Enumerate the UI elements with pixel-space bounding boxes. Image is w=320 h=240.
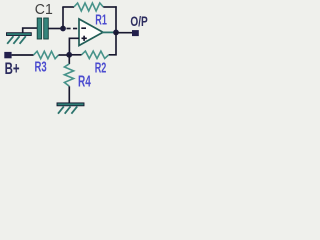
wire: R2 to node C — [70, 54, 82, 56]
node C (non-inverting input junction) — [66, 52, 72, 58]
resistor R1 — [74, 3, 103, 11]
wire: R3 to node C — [59, 54, 68, 56]
svg-text:R1: R1 — [95, 13, 107, 29]
wire: op-amp output stub to node B — [102, 31, 116, 33]
ground GND2 (bottom) — [57, 103, 84, 114]
ground GND1 (top-left, input ground) — [7, 33, 32, 44]
wire: node C down to R4 — [68, 55, 70, 64]
node B (output junction) — [113, 30, 119, 36]
resistor R4 — [64, 64, 73, 87]
wire: C1 right plate to node A — [48, 28, 61, 30]
terminal O/P — [132, 30, 139, 36]
wire: feedback top-left lead to R1 — [62, 6, 74, 8]
wire: node B down to R2 right corner — [109, 32, 116, 54]
svg-text:R2: R2 — [95, 60, 107, 76]
svg-text:R4: R4 — [78, 74, 91, 91]
wire: output riser (feedback right side) — [115, 6, 117, 32]
svg-text:O/P: O/P — [130, 13, 147, 29]
wire: node B to O/P terminal — [116, 32, 132, 34]
wire: B+ to R3 — [12, 54, 34, 56]
op-amp U1 inverting pin marker (-) — [81, 27, 86, 29]
svg-text:R3: R3 — [35, 59, 47, 75]
capacitor C1 — [37, 18, 48, 39]
terminal B+ — [4, 52, 11, 58]
op-amp U1 non-inverting pin marker (+) — [82, 37, 87, 39]
svg-text:C1: C1 — [35, 1, 53, 18]
resistor R3 — [34, 51, 59, 58]
resistor R2 — [82, 51, 109, 58]
op-amp U1 — [79, 19, 103, 46]
node A (inverting input junction) — [60, 26, 66, 32]
wire: R1 to output riser — [103, 6, 116, 8]
svg-text:B+: B+ — [5, 60, 20, 78]
wire: node A to op-amp inverting input (dashed stubs) — [67, 28, 78, 30]
wire: feedback left riser — [62, 7, 64, 29]
wire: op-amp + input down to node C — [69, 38, 79, 55]
wire: R4 down to GND2 — [68, 86, 70, 103]
wire: GND1 up and right to C1 left plate — [23, 28, 37, 33]
